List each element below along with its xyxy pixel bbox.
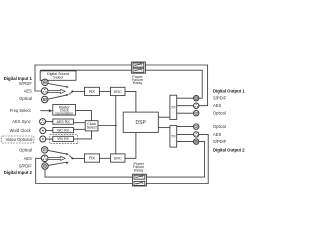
connector AES output2 (XLR): [194, 132, 199, 137]
wire Word Clock to WC RX: [46, 130, 53, 132]
arrow from Optical input1 to selector: [48, 94, 69, 99]
svg-text:Word Clock: Word Clock: [10, 128, 32, 133]
wire SRC1 to DSP: [125, 91, 136, 112]
svg-text:Optical: Optical: [19, 96, 32, 101]
svg-text:VID RX: VID RX: [57, 137, 70, 141]
wire AES input2 to relay2 (outer bottom loop): [36, 158, 133, 183]
connector AES output1 (XLR): [194, 103, 199, 108]
svg-text:Video Optional: Video Optional: [6, 137, 33, 142]
svg-text:TX: TX: [171, 135, 176, 139]
connector Word Clock (BNC): [40, 128, 46, 134]
arrow from Optical input2 to selector: [48, 150, 69, 155]
wire relay1 to S/PDIF output1: [145, 70, 202, 98]
box SRC2: [111, 154, 126, 162]
wire relay1 to AES output1: [145, 65, 207, 106]
wire Clock Select to SRC clock bus: [98, 125, 116, 127]
wire clock bus SRC1 to SRC2: [115, 96, 117, 154]
svg-text:TX: TX: [171, 106, 176, 110]
svg-text:Optical: Optical: [19, 147, 32, 152]
svg-text:Optical: Optical: [213, 111, 226, 116]
svg-text:Digital Output 2: Digital Output 2: [213, 148, 245, 153]
box Digital Source Select: [40, 71, 76, 80]
wire TX2 to AES output2: [177, 133, 194, 135]
svg-text:DSP: DSP: [136, 120, 147, 126]
wire S/PDIF input1 to relay1: [40, 69, 131, 71]
wire WC RX to Clock Select: [74, 128, 86, 130]
svg-text:SRC: SRC: [114, 157, 122, 161]
wire AES Sync to AES RX: [46, 121, 53, 123]
svg-text:S/PDIF: S/PDIF: [19, 164, 33, 169]
connector Optical input1 (TOSLINK): [42, 96, 48, 102]
box TX1: [170, 95, 177, 119]
svg-text:Select: Select: [53, 75, 63, 79]
svg-text:S/PDIF: S/PDIF: [213, 96, 227, 101]
wire selector to RX1: [72, 90, 84, 92]
box WC RX: [53, 128, 74, 133]
box RX2: [85, 154, 100, 162]
svg-text:Relay: Relay: [134, 168, 144, 172]
svg-text:Digital Output 1: Digital Output 1: [213, 89, 245, 94]
box Clock Select: [85, 121, 98, 131]
wire DSP to TX1: [158, 116, 170, 118]
wire Video to VID RX: [46, 138, 53, 140]
box VID RX (optional, dashed): [50, 135, 78, 144]
connector Optical output2 (TOSLINK): [194, 124, 199, 129]
connector S/PDIF input1 (RCA): [42, 79, 48, 85]
svg-text:RX: RX: [89, 156, 95, 161]
wire TX2 to S/PDIF output2: [177, 141, 194, 143]
svg-text:Relay: Relay: [133, 81, 143, 85]
box Video Optional label (dashed): [1, 136, 34, 143]
connector AES Sync (XLR): [40, 119, 46, 125]
wire selector to RX2: [72, 157, 84, 159]
wire TX1 to S/PDIF output1: [177, 97, 194, 99]
svg-text:S/PDIF: S/PDIF: [213, 139, 227, 144]
svg-text:AES RX: AES RX: [57, 120, 71, 124]
wire DSP to TX2: [158, 127, 170, 129]
svg-text:Select: Select: [87, 126, 97, 130]
box AES RX: [53, 119, 74, 124]
svg-text:AES: AES: [24, 88, 32, 93]
svg-text:RX: RX: [89, 89, 95, 94]
wire S/PDIF input2 to relay2 (inner bottom): [45, 169, 132, 177]
selector switch wiper input2: [69, 155, 73, 159]
box RX1: [85, 87, 100, 95]
arrow (selected, hollow) from AES input1 to selector: [48, 89, 65, 93]
svg-text:AES Sync: AES Sync: [12, 119, 30, 124]
connector S/PDIF input2 (RCA): [42, 163, 48, 169]
wire AES input1 to relay1 (outer top loop): [35, 65, 131, 91]
svg-text:AES: AES: [24, 156, 32, 161]
wire TX1 to Optical output1: [177, 112, 194, 114]
svg-text:AES: AES: [213, 132, 221, 137]
connector AES input2 (XLR): [41, 155, 48, 162]
svg-text:AES: AES: [213, 103, 221, 108]
connector S/PDIF output1 (RCA): [194, 96, 199, 101]
wire Master Clock Generation to Clock Select: [76, 111, 92, 121]
svg-text:Optical: Optical: [213, 124, 226, 129]
svg-text:S/PDIF: S/PDIF: [19, 81, 33, 86]
svg-text:SRC: SRC: [114, 90, 122, 94]
connector Optical input2 (TOSLINK): [42, 147, 48, 153]
svg-text:WC RX: WC RX: [57, 128, 70, 132]
wire TX2 to Optical output2: [177, 126, 194, 128]
arrow from S/PDIF input1 to selector: [48, 84, 69, 88]
wire RX2 to SRC2: [100, 157, 111, 159]
relay K1 Power Failure Relay (top): [131, 62, 145, 73]
wire relay2 to AES output2: [146, 134, 208, 183]
connector S/PDIF output2 (RCA): [194, 139, 199, 144]
wire VID RX to Clock Select: [74, 131, 92, 139]
connector AES input1 (XLR): [41, 88, 48, 95]
relay K2 Power Failure Relay (bottom): [132, 174, 146, 186]
wire relay2 to S/PDIF output2: [146, 142, 204, 178]
arrow Freq Select into Master Clock Generation: [40, 109, 52, 112]
svg-text:Digital Input 2: Digital Input 2: [4, 170, 33, 175]
box TX2: [170, 126, 177, 148]
selector switch wiper input1: [69, 90, 73, 94]
box DSP U1: [123, 112, 158, 132]
wire SRC2 to DSP: [125, 132, 136, 158]
box Master Clock Generation: [53, 105, 76, 116]
arrow from S/PDIF input2 to selector: [48, 162, 69, 166]
wire TX1 to AES output1: [177, 105, 194, 107]
svg-text:Freq Select: Freq Select: [10, 108, 32, 113]
arrow (selected, hollow) from AES input2 to selector: [48, 156, 65, 160]
wire AES RX to Clock Select: [74, 122, 86, 124]
connector Optical output1 (TOSLINK): [194, 111, 199, 116]
wire RX1 to SRC1: [100, 90, 111, 92]
node clock junction: [115, 125, 117, 127]
connector Video sync (BNC): [40, 136, 46, 142]
box SRC1: [111, 87, 126, 95]
svg-text:Generation: Generation: [55, 112, 73, 116]
